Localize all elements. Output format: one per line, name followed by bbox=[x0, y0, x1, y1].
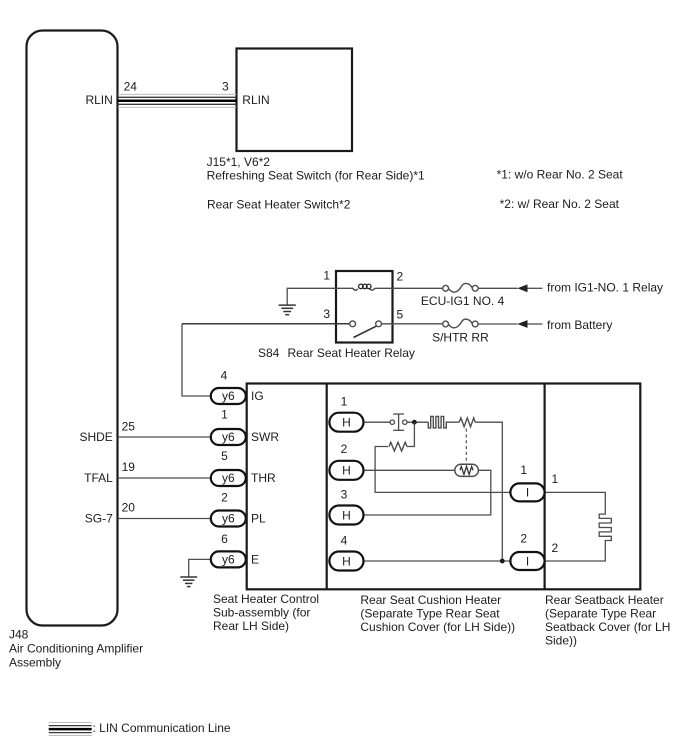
svg-text:20: 20 bbox=[122, 501, 136, 515]
svg-text:24: 24 bbox=[124, 79, 138, 93]
svg-text:S/HTR RR: S/HTR RR bbox=[432, 331, 489, 345]
svg-text:TFAL: TFAL bbox=[84, 471, 113, 485]
svg-text:2: 2 bbox=[221, 491, 228, 505]
svg-text:*2: w/ Rear No. 2 Seat: *2: w/ Rear No. 2 Seat bbox=[500, 197, 620, 211]
svg-text:2: 2 bbox=[397, 269, 404, 283]
svg-text:y6: y6 bbox=[222, 430, 235, 444]
svg-text:ECU-IG1 NO. 4: ECU-IG1 NO. 4 bbox=[421, 294, 505, 308]
svg-text:E: E bbox=[251, 553, 259, 567]
svg-text:*1: w/o Rear No. 2 Seat: *1: w/o Rear No. 2 Seat bbox=[497, 168, 624, 182]
svg-text:1: 1 bbox=[323, 269, 330, 283]
svg-text:H: H bbox=[342, 508, 351, 522]
svg-text:Refreshing Seat Switch (for Re: Refreshing Seat Switch (for Rear Side)*1 bbox=[207, 168, 425, 182]
svg-text:4: 4 bbox=[221, 369, 228, 383]
svg-text:H: H bbox=[342, 464, 351, 478]
svg-text:Rear Seat Heater Relay: Rear Seat Heater Relay bbox=[288, 346, 415, 360]
svg-text:3: 3 bbox=[341, 488, 348, 502]
svg-text:Sub-assembly (for: Sub-assembly (for bbox=[213, 606, 310, 620]
svg-text:IG: IG bbox=[251, 389, 264, 403]
svg-text:5: 5 bbox=[221, 449, 228, 463]
svg-text:Seat Heater Control: Seat Heater Control bbox=[213, 592, 319, 606]
svg-text:3: 3 bbox=[323, 307, 330, 321]
svg-text:25: 25 bbox=[122, 420, 136, 434]
svg-text:J48: J48 bbox=[9, 628, 29, 642]
svg-text:y6: y6 bbox=[222, 553, 235, 567]
svg-text:(Separate Type Rear Seat: (Separate Type Rear Seat bbox=[360, 607, 500, 621]
svg-text:S84: S84 bbox=[258, 346, 280, 360]
svg-text:5: 5 bbox=[397, 308, 404, 322]
svg-text:(Separate Type Rear: (Separate Type Rear bbox=[545, 607, 656, 621]
svg-text:1: 1 bbox=[221, 408, 228, 422]
svg-text:1: 1 bbox=[341, 394, 348, 408]
svg-text:I: I bbox=[526, 486, 529, 500]
svg-text:2: 2 bbox=[552, 541, 559, 555]
svg-text:Rear Seat Heater Switch*2: Rear Seat Heater Switch*2 bbox=[207, 197, 351, 211]
svg-text:y6: y6 bbox=[222, 471, 235, 485]
svg-text:y6: y6 bbox=[222, 512, 235, 526]
svg-text:THR: THR bbox=[251, 471, 276, 485]
svg-text:Rear Seatback Heater: Rear Seatback Heater bbox=[545, 593, 664, 607]
svg-text:Air Conditioning Amplifier: Air Conditioning Amplifier bbox=[9, 642, 143, 656]
svg-text:19: 19 bbox=[122, 460, 136, 474]
svg-text:SHDE: SHDE bbox=[79, 430, 112, 444]
svg-text:y6: y6 bbox=[222, 389, 235, 403]
svg-text:1: 1 bbox=[552, 472, 559, 486]
svg-text:6: 6 bbox=[221, 532, 228, 546]
svg-text:from IG1-NO. 1 Relay: from IG1-NO. 1 Relay bbox=[547, 281, 663, 295]
svg-text:2: 2 bbox=[520, 532, 527, 546]
svg-text:SG-7: SG-7 bbox=[85, 512, 113, 526]
svg-text:Seatback Cover (for LH: Seatback Cover (for LH bbox=[545, 620, 670, 634]
svg-text:H: H bbox=[342, 554, 351, 568]
svg-text:3: 3 bbox=[222, 79, 229, 93]
svg-text:Rear Seat Cushion Heater: Rear Seat Cushion Heater bbox=[360, 593, 501, 607]
svg-text:2: 2 bbox=[341, 442, 348, 456]
svg-text:Cushion Cover (for LH Side)): Cushion Cover (for LH Side)) bbox=[360, 620, 515, 634]
svg-text:RLIN: RLIN bbox=[242, 93, 269, 107]
svg-text:Side)): Side)) bbox=[545, 634, 577, 648]
svg-text:J15*1, V6*2: J15*1, V6*2 bbox=[207, 155, 271, 169]
svg-text:H: H bbox=[342, 416, 351, 430]
svg-text:Rear LH Side): Rear LH Side) bbox=[213, 619, 289, 633]
svg-text:: LIN Communication Line: : LIN Communication Line bbox=[93, 721, 231, 735]
svg-text:4: 4 bbox=[341, 534, 348, 548]
svg-text:from Battery: from Battery bbox=[547, 318, 612, 332]
svg-text:1: 1 bbox=[520, 463, 527, 477]
svg-text:SWR: SWR bbox=[251, 430, 279, 444]
svg-text:RLIN: RLIN bbox=[85, 93, 112, 107]
svg-text:I: I bbox=[526, 554, 529, 568]
svg-text:Assembly: Assembly bbox=[9, 656, 61, 670]
svg-text:PL: PL bbox=[251, 512, 266, 526]
